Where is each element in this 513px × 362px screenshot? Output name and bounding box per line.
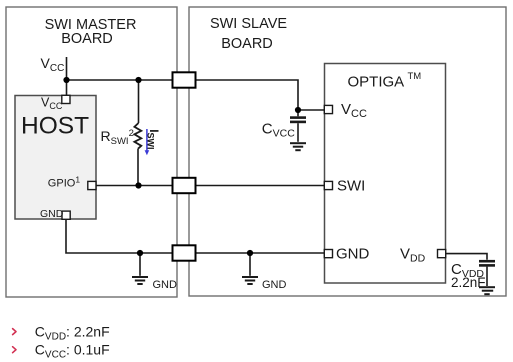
svg-text:BOARD: BOARD <box>221 36 273 52</box>
svg-text:BOARD: BOARD <box>61 31 113 47</box>
svg-text:2.2nF: 2.2nF <box>451 275 486 290</box>
svg-text:GND: GND <box>262 279 287 291</box>
svg-text:GND: GND <box>153 279 178 291</box>
svg-text:OPTIGA: OPTIGA <box>348 74 405 91</box>
svg-text:TM: TM <box>408 71 422 82</box>
svg-text:SWI SLAVE: SWI SLAVE <box>210 16 287 32</box>
svg-text:GND: GND <box>336 246 370 263</box>
svg-text:SWI: SWI <box>337 178 365 195</box>
svg-text:HOST: HOST <box>21 113 89 140</box>
svg-text:CVDD: 2.2nF: CVDD: 2.2nF <box>35 323 110 342</box>
svg-text:GND: GND <box>40 208 64 220</box>
svg-text:CVCC: 0.1uF: CVCC: 0.1uF <box>35 341 110 360</box>
